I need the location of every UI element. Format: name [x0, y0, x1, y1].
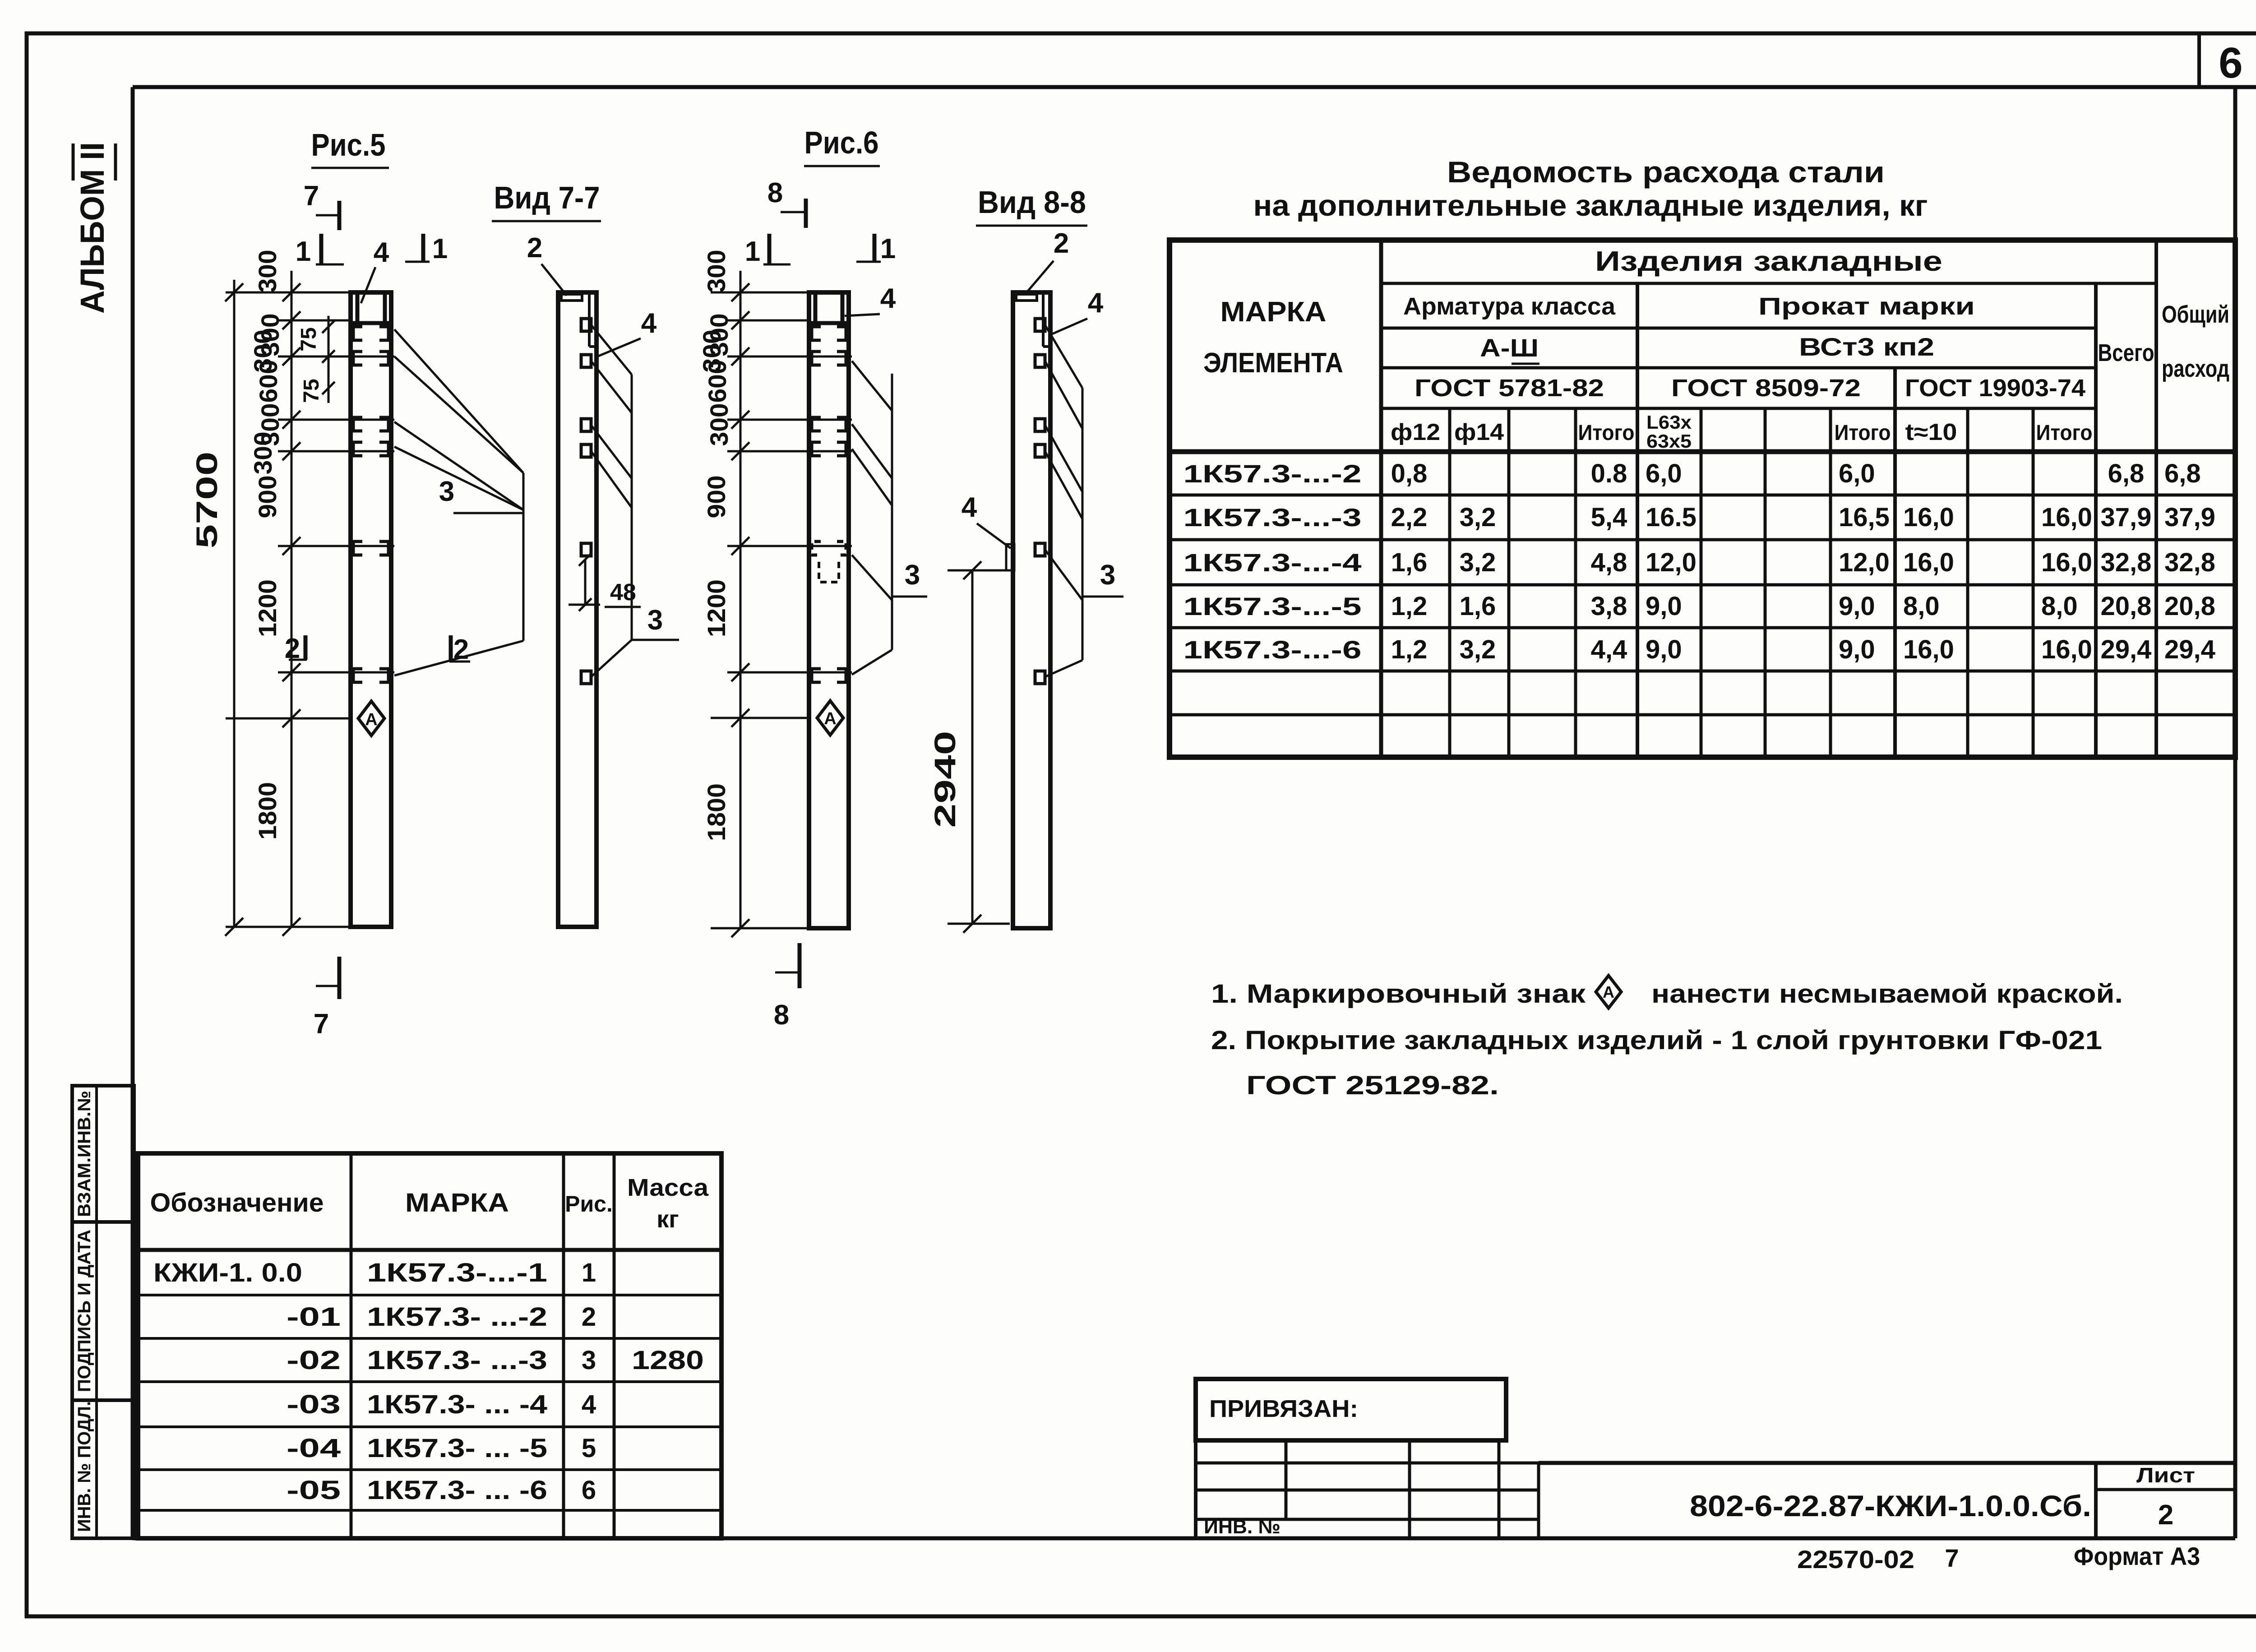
- plate 2 top view7-7: [527, 232, 582, 301]
- svg-text:Обозначение: Обозначение: [150, 1188, 324, 1217]
- svg-text:-04: -04: [287, 1434, 341, 1463]
- svg-text:1. Маркировочный знак: 1. Маркировочный знак: [1211, 979, 1586, 1009]
- svg-text:-01: -01: [287, 1302, 341, 1332]
- dimension 2940 view8-8: [928, 561, 1010, 933]
- svg-text:3: 3: [582, 1346, 596, 1375]
- svg-text:КЖИ-1. 0.0: КЖИ-1. 0.0: [153, 1258, 302, 1287]
- svg-text:8,0: 8,0: [2041, 592, 2078, 621]
- svg-text:16,5: 16,5: [1839, 503, 1890, 532]
- svg-text:2: 2: [1054, 228, 1069, 259]
- svg-text:900: 900: [702, 476, 730, 518]
- svg-text:2,2: 2,2: [1391, 503, 1428, 532]
- plate 4 left view8-8: [962, 492, 1014, 570]
- svg-text:9,0: 9,0: [1839, 635, 1875, 664]
- svg-text:29,4: 29,4: [2101, 635, 2152, 664]
- svg-text:4: 4: [374, 237, 389, 268]
- section marker 8 top: [767, 177, 806, 228]
- svg-text:ИНВ. № ПОДЛ.: ИНВ. № ПОДЛ.: [74, 1401, 94, 1532]
- bottom annotations: [1797, 1542, 2200, 1573]
- svg-text:4: 4: [962, 492, 977, 523]
- figure title Рис.6: [804, 125, 880, 166]
- svg-text:ЭЛЕМЕНТА: ЭЛЕМЕНТА: [1203, 347, 1343, 379]
- svg-text:1800: 1800: [702, 783, 730, 841]
- svg-text:0,8: 0,8: [1391, 459, 1428, 488]
- embedded items 3 squares view7-7: [581, 319, 591, 684]
- svg-text:48: 48: [610, 579, 636, 606]
- embedded items 3 marks fig5: [353, 327, 388, 682]
- svg-text:А: А: [1603, 983, 1614, 1001]
- svg-text:Рис.6: Рис.6: [804, 125, 879, 160]
- svg-text:300: 300: [702, 250, 730, 293]
- svg-text:3,2: 3,2: [1460, 503, 1496, 532]
- specification table header: [150, 1174, 709, 1233]
- svg-text:4: 4: [582, 1390, 596, 1419]
- svg-text:29,4: 29,4: [2164, 635, 2215, 664]
- svg-text:4: 4: [641, 308, 657, 339]
- marking sign А fig6: [817, 701, 843, 735]
- svg-text:Итого: Итого: [2036, 421, 2093, 445]
- plate 2 top view8-8: [1016, 228, 1069, 301]
- privyazan header box: [1196, 1379, 1506, 1440]
- svg-text:расход: расход: [2162, 355, 2229, 382]
- svg-text:Ведомость расхода стали: Ведомость расхода стали: [1447, 155, 1885, 189]
- note 2 coating: [1211, 1026, 2102, 1100]
- svg-text:300: 300: [253, 250, 282, 293]
- section marker 7 bottom: [314, 957, 339, 1040]
- svg-text:802-6-22.87-КЖИ-1.0.0.Сб.: 802-6-22.87-КЖИ-1.0.0.Сб.: [1690, 1489, 2091, 1522]
- svg-text:3,8: 3,8: [1591, 592, 1627, 621]
- section marker 1 top-right fig6: [856, 233, 896, 264]
- svg-text:32,8: 32,8: [2101, 548, 2152, 577]
- album label АЛЬБОМ II: [73, 142, 116, 314]
- svg-text:4: 4: [880, 283, 896, 314]
- svg-text:Итого: Итого: [1578, 421, 1635, 445]
- svg-text:А-Ш: А-Ш: [1480, 333, 1539, 362]
- svg-text:16,0: 16,0: [2041, 548, 2092, 577]
- svg-text:ВСт3 кп2: ВСт3 кп2: [1799, 333, 1934, 361]
- svg-text:Вид 8-8: Вид 8-8: [978, 185, 1086, 220]
- svg-text:1: 1: [432, 233, 448, 264]
- section marker 2 mid-left fig5: [285, 633, 307, 664]
- embedded cap item fig5: [351, 294, 390, 323]
- dimension 48 view7-7: [569, 553, 641, 611]
- figure title Рис.5: [311, 127, 389, 168]
- note 1 marking sign: [1211, 976, 2123, 1009]
- svg-text:Арматура класса: Арматура класса: [1403, 293, 1616, 320]
- svg-text:3: 3: [1100, 560, 1115, 591]
- svg-text:L63x: L63x: [1646, 412, 1692, 433]
- svg-text:1: 1: [582, 1258, 596, 1287]
- label 4 with leader fig6: [845, 283, 896, 316]
- svg-text:ПРИВЯЗАН:: ПРИВЯЗАН:: [1209, 1395, 1358, 1422]
- svg-text:7: 7: [1945, 1544, 1959, 1572]
- svg-text:1,6: 1,6: [1460, 592, 1496, 621]
- svg-text:6,0: 6,0: [1839, 459, 1875, 488]
- svg-text:МАРКА: МАРКА: [1220, 296, 1327, 328]
- angle 4 top view7-7: [589, 294, 657, 356]
- svg-text:1К57.3-...-1: 1К57.3-...-1: [367, 1258, 547, 1287]
- svg-text:ИНВ. №: ИНВ. №: [1204, 1516, 1281, 1538]
- svg-text:2: 2: [2158, 1499, 2173, 1531]
- svg-text:2940: 2940: [928, 731, 962, 828]
- svg-text:1К57.3-...-6: 1К57.3-...-6: [1183, 635, 1362, 664]
- svg-text:-03: -03: [287, 1390, 341, 1419]
- svg-text:22570-02: 22570-02: [1797, 1545, 1914, 1573]
- label 4 with leader (fig5 cap): [361, 237, 389, 303]
- svg-text:16,0: 16,0: [1903, 635, 1954, 664]
- svg-text:16,0: 16,0: [1903, 503, 1954, 532]
- svg-text:ВЗАМ.ИНВ.№: ВЗАМ.ИНВ.№: [74, 1091, 94, 1217]
- column outline fig5: [351, 292, 391, 927]
- svg-text:300: 300: [705, 403, 733, 446]
- svg-text:3: 3: [439, 476, 454, 507]
- specification table rows: [153, 1258, 704, 1505]
- svg-text:Рис.5: Рис.5: [311, 127, 386, 162]
- title block band: [1539, 1463, 2235, 1538]
- section marker 7 top: [304, 180, 339, 230]
- svg-text:ф14: ф14: [1454, 419, 1504, 445]
- svg-text:Изделия закладные: Изделия закладные: [1595, 246, 1942, 277]
- section marker 2 mid-right fig5: [449, 634, 470, 665]
- svg-text:5,4: 5,4: [1591, 503, 1627, 532]
- svg-text:20,8: 20,8: [2164, 592, 2215, 621]
- dimension chain fig5: [226, 271, 394, 936]
- svg-text:9,0: 9,0: [1839, 592, 1875, 621]
- svg-text:3: 3: [905, 560, 920, 591]
- svg-text:кг: кг: [656, 1206, 679, 1233]
- svg-text:6,0: 6,0: [1646, 459, 1682, 488]
- svg-text:1: 1: [880, 233, 896, 264]
- svg-text:Общий: Общий: [2162, 301, 2229, 328]
- svg-text:1К57.3- ...-2: 1К57.3- ...-2: [367, 1302, 547, 1332]
- svg-text:1200: 1200: [702, 579, 730, 637]
- leader lines to label 3 view8-8: [1045, 325, 1123, 677]
- stamp label Инв.№ подл.: [74, 1401, 94, 1532]
- svg-text:ф12: ф12: [1391, 419, 1440, 445]
- steel table data rows: [1183, 459, 2215, 664]
- svg-text:1280: 1280: [632, 1346, 704, 1375]
- embedded items 3 squares view8-8: [1035, 319, 1045, 684]
- marking sign А fig5: [358, 701, 384, 736]
- overall dimension 5700 fig5: [190, 280, 243, 936]
- svg-text:ГОСТ 25129-82.: ГОСТ 25129-82.: [1246, 1071, 1499, 1100]
- svg-text:9,0: 9,0: [1646, 635, 1682, 664]
- svg-text:Лист: Лист: [2136, 1463, 2195, 1487]
- svg-text:6,8: 6,8: [2164, 459, 2201, 488]
- svg-text:9,0: 9,0: [1646, 592, 1682, 621]
- section marker 1 top-left fig6: [745, 234, 791, 267]
- svg-text:Итого: Итого: [1835, 421, 1891, 445]
- svg-text:37,9: 37,9: [2164, 503, 2215, 532]
- section marker 8 bottom: [774, 943, 800, 1031]
- svg-text:0.8: 0.8: [1591, 459, 1627, 488]
- left stamp boxes: [72, 1086, 134, 1538]
- svg-text:1К57.3- ... -6: 1К57.3- ... -6: [367, 1476, 547, 1505]
- column outline fig6: [809, 292, 849, 928]
- svg-text:ГОСТ 8509-72: ГОСТ 8509-72: [1671, 375, 1861, 402]
- svg-text:6: 6: [582, 1476, 596, 1505]
- svg-text:8,0: 8,0: [1903, 592, 1940, 621]
- specification table grid: [138, 1153, 721, 1538]
- steel table header texts: [1203, 246, 2229, 452]
- mini dimension 75 75 fig5: [297, 316, 335, 403]
- svg-text:6: 6: [2219, 39, 2242, 87]
- svg-text:12,0: 12,0: [1646, 548, 1697, 577]
- svg-text:1К57.3-...-3: 1К57.3-...-3: [1183, 503, 1362, 532]
- svg-text:t≈10: t≈10: [1905, 419, 1957, 445]
- section marker 1 top-left: [296, 234, 344, 267]
- column outline view8-8: [1013, 292, 1050, 928]
- svg-text:1200: 1200: [253, 579, 282, 637]
- svg-text:900: 900: [253, 476, 282, 518]
- svg-text:1К57.3- ...-3: 1К57.3- ...-3: [367, 1346, 547, 1375]
- steel table grid: [1170, 240, 2235, 757]
- page number box 6: [2199, 33, 2243, 87]
- svg-text:8: 8: [767, 177, 783, 208]
- embedded cap item fig6: [810, 294, 848, 323]
- svg-text:4: 4: [1088, 287, 1104, 319]
- svg-text:600: 600: [703, 360, 731, 403]
- svg-text:ГОСТ 5781-82: ГОСТ 5781-82: [1415, 375, 1604, 402]
- svg-text:75: 75: [297, 327, 321, 351]
- svg-text:16.5: 16.5: [1646, 503, 1697, 532]
- svg-text:Всего: Всего: [2098, 339, 2154, 366]
- svg-text:1К57.3- ... -5: 1К57.3- ... -5: [367, 1434, 547, 1463]
- svg-text:1К57.3-...-5: 1К57.3-...-5: [1183, 592, 1362, 620]
- steel consumption table title: [1253, 155, 1928, 222]
- svg-text:АЛЬБОМ II: АЛЬБОМ II: [74, 142, 111, 314]
- column outline view7-7: [558, 292, 596, 927]
- svg-text:1: 1: [296, 236, 311, 267]
- dimension chain fig6: [711, 271, 852, 937]
- svg-text:32,8: 32,8: [2164, 548, 2215, 577]
- svg-text:Рис.: Рис.: [565, 1191, 613, 1217]
- stamp label Подпись и дата: [74, 1230, 94, 1392]
- svg-text:1,2: 1,2: [1391, 635, 1428, 664]
- svg-text:на дополнительные закладные из: на дополнительные закладные изделия, кг: [1253, 189, 1928, 222]
- view title Вид 8-8: [976, 185, 1087, 226]
- svg-text:12,0: 12,0: [1839, 548, 1890, 577]
- dimension labels fig6 chain: [698, 250, 733, 842]
- svg-text:16,0: 16,0: [2041, 503, 2092, 532]
- svg-text:4,8: 4,8: [1591, 548, 1627, 577]
- svg-text:7: 7: [314, 1009, 329, 1040]
- svg-text:16,0: 16,0: [2041, 635, 2092, 664]
- svg-text:1К57.3- ... -4: 1К57.3- ... -4: [367, 1390, 547, 1419]
- svg-text:1К57.3-...-4: 1К57.3-...-4: [1183, 548, 1362, 577]
- dimension labels fig5 chain: [249, 250, 284, 840]
- svg-text:2: 2: [582, 1302, 596, 1332]
- angle 4 top view8-8: [1043, 287, 1104, 347]
- svg-text:5: 5: [582, 1434, 596, 1463]
- svg-text:ПОДПИСЬ И ДАТА: ПОДПИСЬ И ДАТА: [74, 1230, 94, 1392]
- svg-text:1800: 1800: [253, 782, 282, 840]
- svg-text:20,8: 20,8: [2101, 592, 2152, 621]
- svg-text:А: А: [824, 709, 836, 728]
- stamp label Взам.инв.№: [74, 1091, 94, 1217]
- svg-text:МАРКА: МАРКА: [405, 1188, 509, 1217]
- svg-text:1,6: 1,6: [1391, 548, 1428, 577]
- svg-text:Прокат марки: Прокат марки: [1758, 293, 1975, 320]
- svg-text:ГОСТ 19903-74: ГОСТ 19903-74: [1905, 375, 2085, 402]
- leader lines to label 3 fig6: [852, 361, 927, 675]
- leader lines to label 3 view7-7: [591, 325, 679, 677]
- svg-text:2: 2: [527, 232, 542, 264]
- svg-text:5700: 5700: [190, 452, 223, 549]
- svg-text:3: 3: [647, 605, 663, 636]
- svg-text:нанести несмываемой краской.: нанести несмываемой краской.: [1651, 979, 2123, 1009]
- svg-text:Вид 7-7: Вид 7-7: [494, 180, 600, 215]
- svg-text:37,9: 37,9: [2101, 503, 2152, 532]
- privyazan grid: [1196, 1440, 1539, 1538]
- svg-text:А: А: [365, 710, 377, 729]
- svg-text:7: 7: [304, 180, 319, 212]
- svg-text:300: 300: [249, 432, 277, 475]
- view title Вид 7-7: [492, 180, 601, 221]
- svg-text:-02: -02: [287, 1346, 341, 1375]
- svg-text:4,4: 4,4: [1591, 635, 1627, 664]
- svg-text:75: 75: [300, 379, 324, 403]
- section marker 1 top-right: [405, 233, 448, 264]
- svg-text:1: 1: [745, 236, 760, 267]
- svg-text:1,2: 1,2: [1391, 592, 1428, 621]
- svg-text:3,2: 3,2: [1460, 635, 1496, 664]
- svg-text:Формат А3: Формат А3: [2074, 1542, 2200, 1570]
- svg-text:-05: -05: [287, 1476, 341, 1505]
- svg-text:2. Покрытие закладных издел: 2. Покрытие закладных изделий - 1 слой г…: [1211, 1026, 2102, 1055]
- leader lines to label 3 fig5: [394, 329, 523, 676]
- svg-text:600: 600: [254, 360, 282, 403]
- svg-text:3,2: 3,2: [1460, 548, 1496, 577]
- svg-text:Масса: Масса: [627, 1174, 709, 1201]
- svg-text:16,0: 16,0: [1903, 548, 1954, 577]
- svg-text:6,8: 6,8: [2108, 459, 2145, 488]
- embedded items 3 marks fig6: [812, 327, 846, 682]
- svg-text:8: 8: [774, 1000, 789, 1031]
- svg-text:1К57.3-...-2: 1К57.3-...-2: [1183, 459, 1362, 488]
- svg-text:63x5: 63x5: [1646, 430, 1692, 452]
